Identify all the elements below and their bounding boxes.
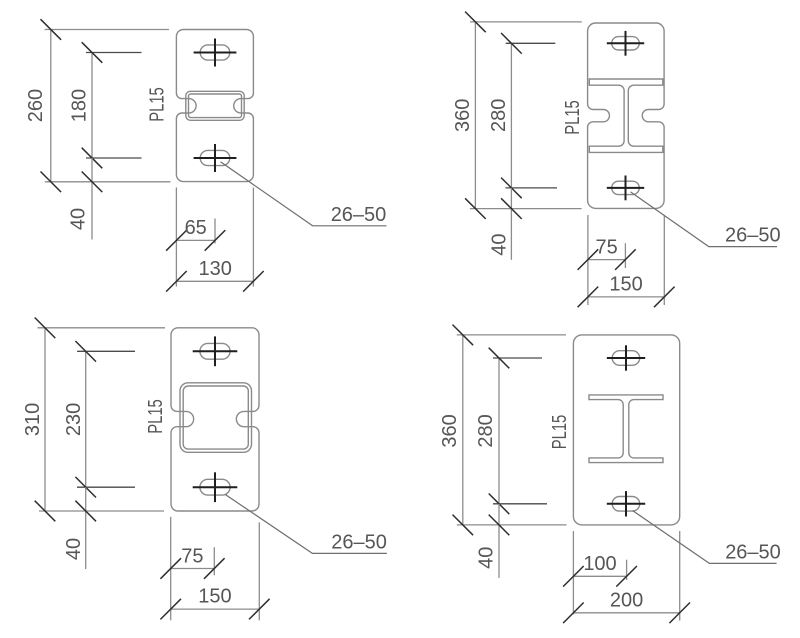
svg-text:75: 75	[595, 236, 617, 258]
extension line bottom-left fig3	[170, 517, 172, 621]
extension line plate top fig1	[45, 29, 169, 31]
svg-text:65: 65	[185, 217, 207, 239]
svg-text:200: 200	[610, 590, 643, 612]
leader line 26-50 fig3	[225, 495, 386, 554]
RHS tube outer wall fig1	[186, 91, 244, 120]
SHS tube inner wall fig3	[183, 386, 248, 449]
svg-text:26–50: 26–50	[725, 225, 781, 247]
svg-text:130: 130	[199, 258, 232, 280]
svg-text:40: 40	[488, 233, 510, 255]
svg-text:280: 280	[488, 99, 510, 132]
dimension line 40 fig3	[85, 487, 87, 569]
centerline cross fig1 top	[194, 52, 237, 54]
dimension line 40 fig4	[498, 504, 500, 578]
bolt slot hole 26-50 fig3 bottom	[200, 479, 230, 495]
dimension line 150 fig2	[588, 296, 665, 298]
dimension line 100 fig4	[573, 575, 627, 577]
dimension line 150 fig3	[170, 608, 259, 610]
svg-text:PL15: PL15	[147, 87, 169, 122]
svg-text:40: 40	[476, 547, 498, 569]
centerline cross fig2 bottom	[607, 187, 644, 189]
I-section outline fig4	[589, 395, 663, 463]
extension line top hole fig2	[506, 42, 556, 44]
svg-text:75: 75	[181, 545, 203, 567]
extension line bottom-right fig4	[679, 531, 681, 621]
centerline cross fig4 bottom	[607, 503, 645, 505]
plate outline fig3	[171, 328, 259, 511]
svg-text:26–50: 26–50	[331, 204, 387, 226]
svg-text:150: 150	[198, 586, 231, 608]
leader line 26-50 fig1	[221, 162, 387, 226]
centerline cross fig3 top	[193, 350, 238, 352]
leader line 26-50 fig2	[631, 192, 777, 247]
svg-text:230: 230	[63, 403, 85, 436]
extension line plate top fig3	[38, 327, 166, 329]
svg-text:PL15: PL15	[549, 415, 571, 450]
leader line 26-50 fig4	[633, 511, 777, 564]
plate outline fig4	[573, 335, 679, 525]
extension line bottom hole fig3	[77, 486, 135, 488]
dimension line 280 fig4	[498, 358, 500, 504]
extension line bottom-right fig3	[258, 522, 260, 620]
extension line bottom hole fig2	[506, 187, 558, 189]
bolt slot hole 26-50 fig2 top	[612, 37, 640, 50]
dimension line 200 fig4	[573, 612, 680, 614]
centerline cross fig3 bottom	[193, 486, 238, 488]
extension line bottom-left fig4	[572, 531, 574, 614]
centerline cross fig2 top	[607, 42, 644, 44]
svg-text:360: 360	[452, 99, 474, 132]
bolt slot hole 26-50 fig2 bottom	[612, 181, 640, 194]
plate outline fig2	[588, 23, 665, 208]
svg-text:40: 40	[68, 208, 90, 230]
svg-text:PL15: PL15	[562, 100, 584, 135]
dimension line 75 fig2	[588, 259, 626, 261]
dimension line 40 fig1	[91, 158, 93, 240]
SHS tube outer wall fig3	[180, 383, 252, 453]
svg-text:150: 150	[609, 273, 642, 295]
dimension line 130 fig1	[176, 280, 254, 282]
centerline cross fig4 top	[607, 357, 645, 359]
extension line plate top fig2	[470, 21, 582, 23]
bolt slot hole 26-50 fig1 top	[200, 45, 230, 60]
svg-text:40: 40	[63, 538, 85, 560]
extension line plate bottom fig4	[457, 524, 567, 526]
extension line bottom hole fig1	[86, 157, 142, 159]
extension line top hole fig3	[77, 350, 135, 352]
bolt slot hole 26-50 fig3 top	[200, 343, 230, 359]
dimension line 180 fig1	[91, 52, 93, 158]
bolt slot hole 26-50 fig4 top	[612, 351, 640, 366]
svg-text:26–50: 26–50	[725, 541, 781, 563]
extension line bottom-middle fig2	[624, 243, 626, 268]
svg-text:360: 360	[439, 414, 461, 447]
RHS tube inner wall fig1	[189, 94, 242, 118]
extension line plate bottom fig2	[470, 208, 582, 210]
extension line plate top fig4	[457, 334, 566, 336]
H-section outline fig2	[589, 79, 663, 152]
dimension line 310 fig3	[44, 328, 46, 512]
svg-text:260: 260	[25, 89, 47, 122]
bolt slot hole 26-50 fig1 bottom	[200, 150, 230, 165]
extension line bottom hole fig4	[493, 503, 547, 505]
svg-text:280: 280	[475, 414, 497, 447]
extension line top hole fig1	[86, 52, 142, 54]
dimension line 40 fig2	[510, 188, 512, 260]
extension line bottom-middle fig1	[214, 219, 216, 244]
dimension line 360 fig4	[462, 335, 464, 526]
dimension line 75 fig3	[170, 568, 214, 570]
dimension line 360 fig2	[474, 22, 476, 209]
svg-text:310: 310	[22, 403, 44, 436]
svg-text:100: 100	[583, 553, 616, 575]
dimension line 65 fig1	[176, 239, 215, 241]
extension line bottom-right fig1	[252, 188, 254, 287]
extension line bottom-left fig1	[175, 188, 177, 287]
svg-text:PL15: PL15	[145, 399, 167, 434]
extension line bottom-right fig2	[663, 215, 665, 305]
dimension line 260 fig1	[50, 29, 52, 182]
dimension line 280 fig2	[510, 43, 512, 188]
extension line bottom-left fig2	[587, 215, 589, 305]
extension line plate bottom fig1	[45, 181, 171, 183]
dimension line 230 fig3	[85, 351, 87, 488]
svg-text:26–50: 26–50	[331, 532, 387, 554]
extension line top hole fig4	[493, 357, 542, 359]
svg-text:180: 180	[69, 89, 91, 122]
extension line plate bottom fig3	[39, 510, 164, 512]
bolt slot hole 26-50 fig4 bottom	[612, 497, 640, 512]
extension line bottom-middle fig4	[626, 560, 628, 580]
extension line bottom-middle fig3	[213, 547, 215, 575]
centerline cross fig1 bottom	[194, 157, 237, 159]
plate outline fig1	[176, 30, 253, 182]
